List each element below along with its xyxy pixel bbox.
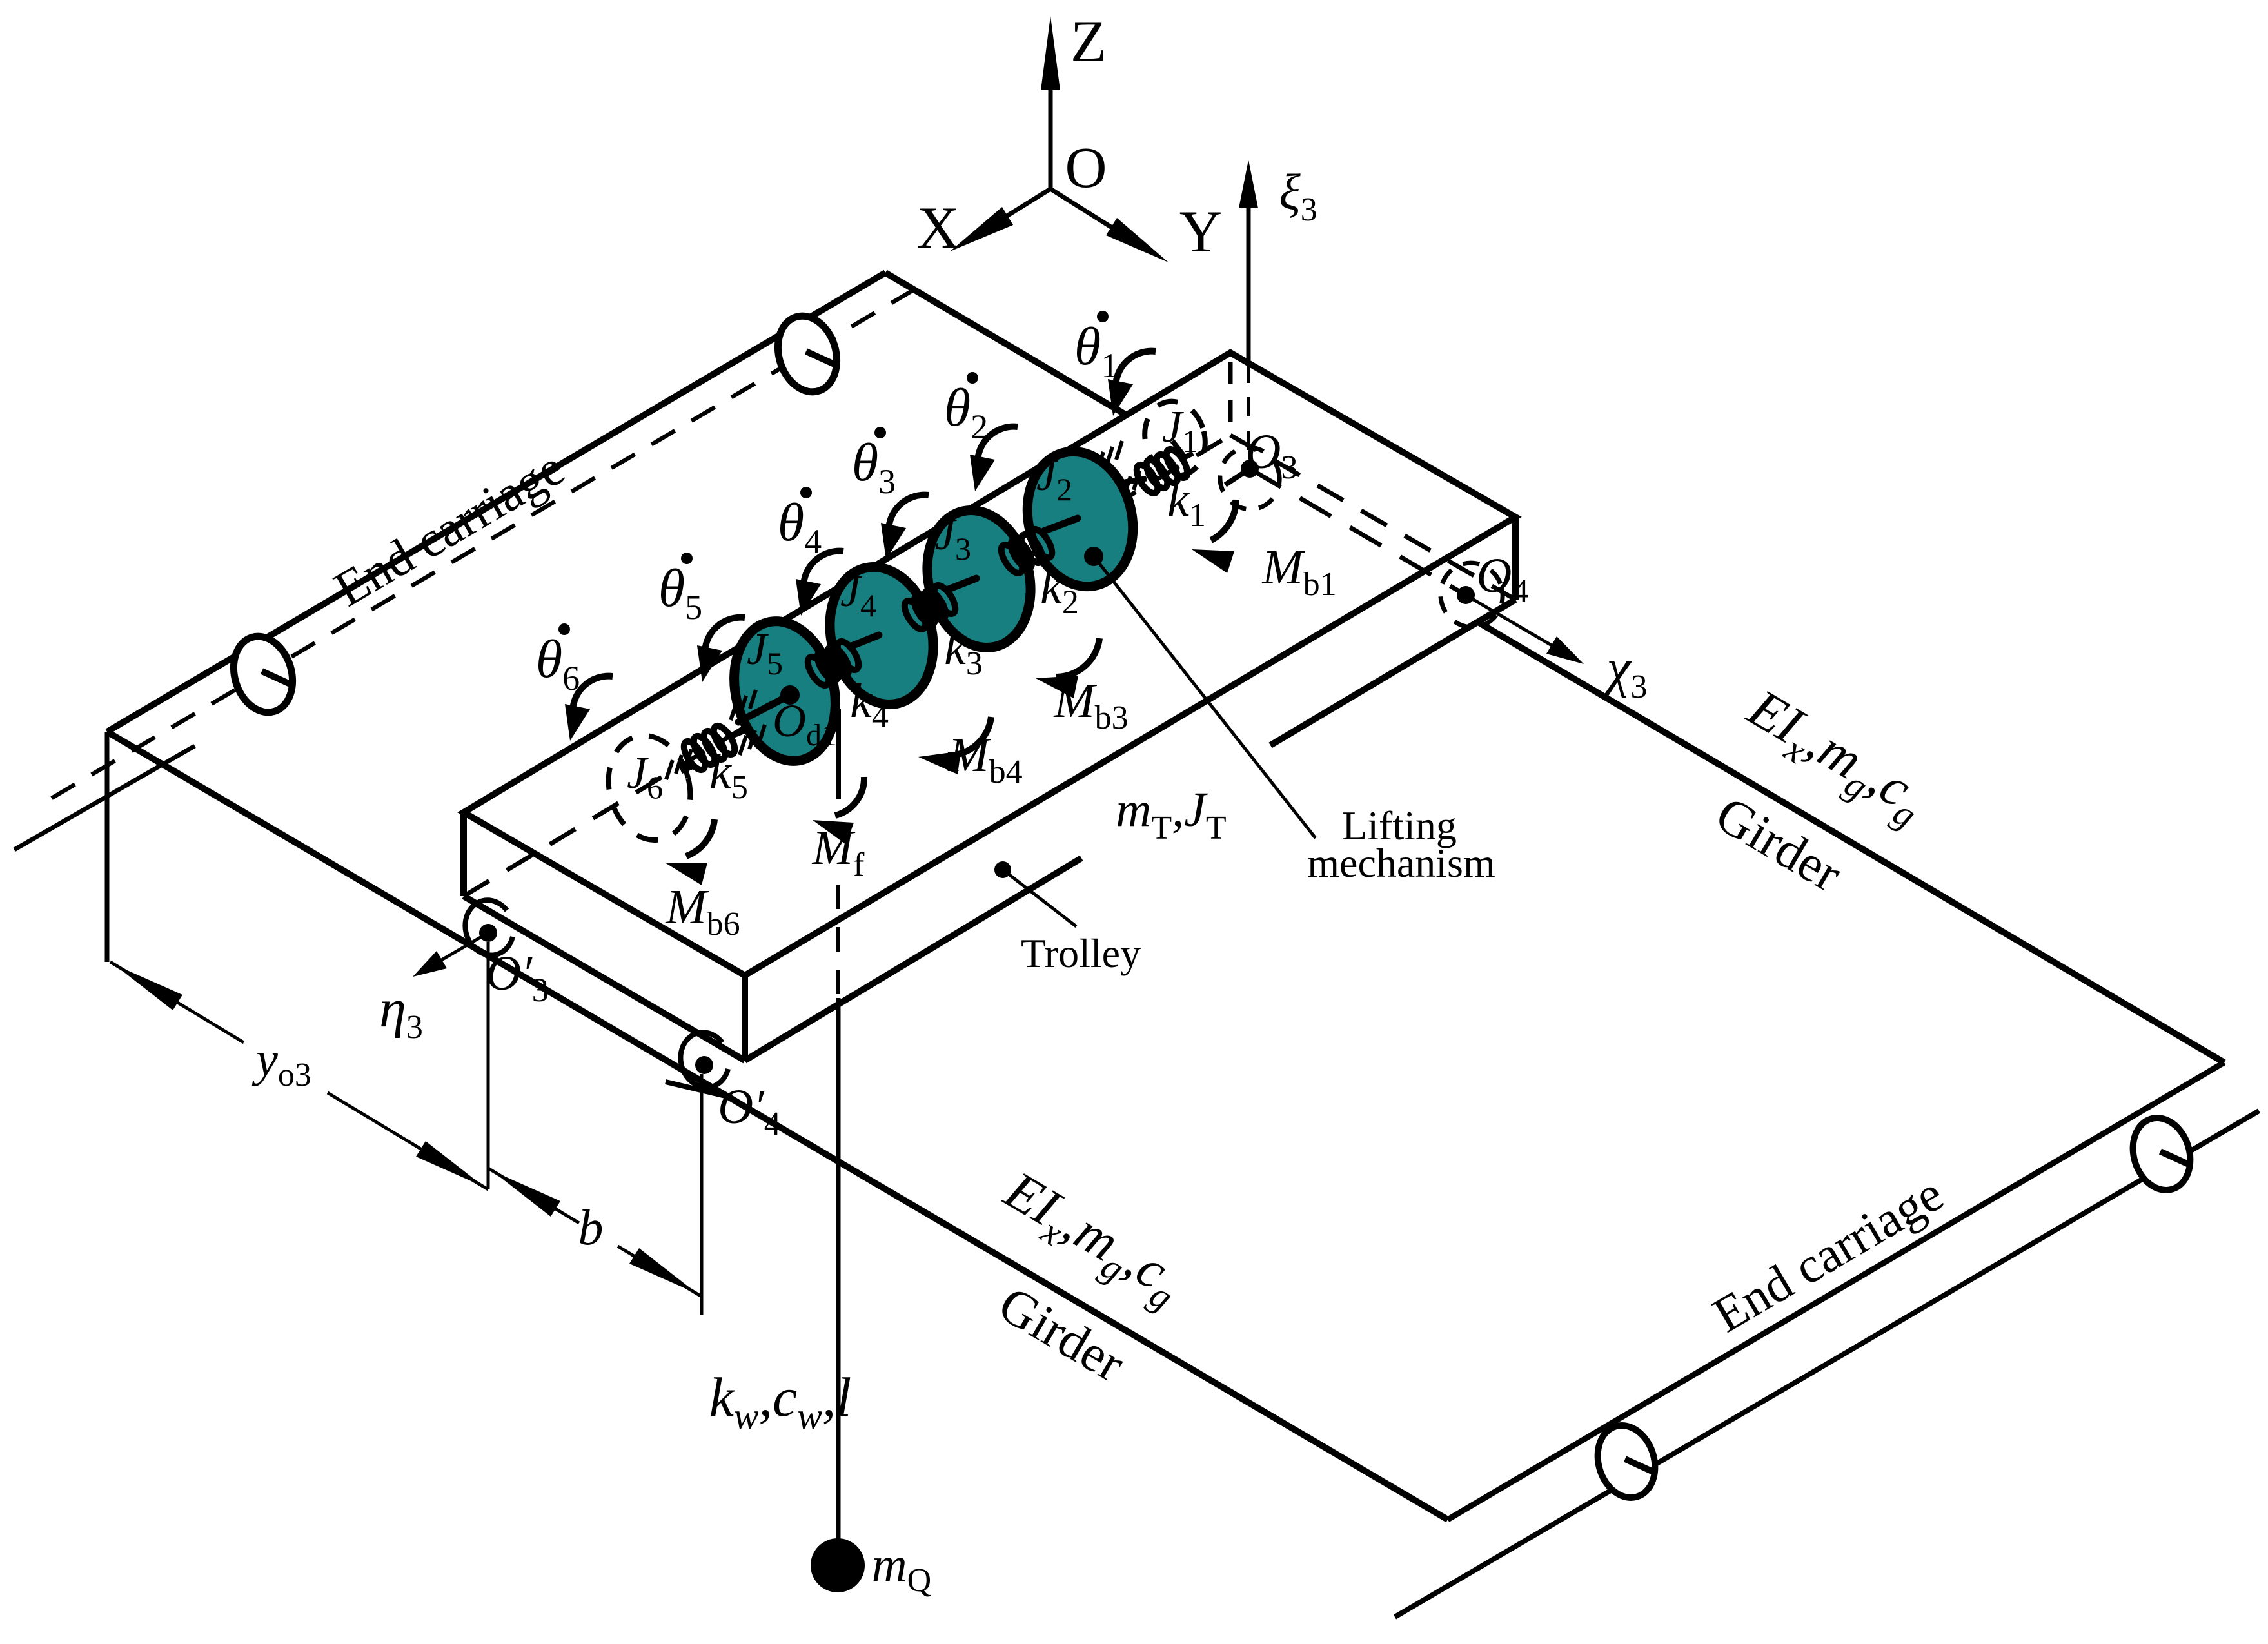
crank bar Od1-k5 — [738, 695, 790, 722]
moment arrow M_b4 — [948, 717, 991, 756]
girder (bottom-left) outer edge — [107, 732, 1448, 1520]
inertia disk J5 — [720, 611, 850, 772]
rotation arrow theta5 — [705, 618, 745, 655]
O'3 vertical reference line — [487, 942, 490, 1189]
hatching at k1 (lower) — [1105, 488, 1111, 507]
node Od1 (drum centre on J5) — [780, 685, 800, 705]
rotation arrow theta3 — [889, 495, 929, 533]
xi3 axis hidden part — [1247, 364, 1250, 469]
inertia disk J1 (dashed) — [1137, 395, 1212, 482]
hatching at k5 (right upper) — [731, 701, 737, 720]
wheel slash (EC1 upper) — [806, 351, 836, 365]
trolley wheel O'4 circle — [680, 1032, 728, 1087]
end carriage (bottom-right) upper edge — [1448, 1062, 2224, 1520]
trolley front vertical edge — [742, 975, 748, 1061]
node O4 — [1457, 586, 1475, 604]
Y axis — [1050, 189, 1148, 250]
moment arrow M_f — [835, 777, 864, 816]
hatching at k1 (upper) — [1097, 452, 1103, 471]
trolley left vertical edge — [460, 812, 467, 896]
wheel (end carriage top-left, lower) — [224, 629, 301, 719]
end carriage (bottom-right) lower edge — [1395, 1111, 2259, 1617]
wheel slash (EC2 upper) — [2160, 1151, 2190, 1165]
svg-text:b: b — [578, 1199, 604, 1255]
shaft stub J2-k1 — [1113, 478, 1147, 484]
axis line O3-O4 hidden — [1250, 469, 1466, 595]
leader line to Trolley — [1003, 870, 1076, 926]
spring k4 coil — [804, 654, 833, 689]
leader line to Lifting mechanism — [1094, 556, 1316, 838]
moment arrow M_b3 — [1056, 638, 1099, 677]
rotation arrow theta6 — [573, 676, 613, 714]
frame left vertical edge — [105, 732, 110, 962]
node O'4 — [695, 1056, 713, 1074]
inertia disk J4 — [816, 556, 947, 715]
svg-text:kw,cw,l: kw,cw,l — [709, 1366, 852, 1437]
node on disk J2 (leader dot) — [1084, 547, 1103, 566]
load mass m_Q ball — [811, 1538, 865, 1592]
wheel slash (EC2 lower) — [1625, 1459, 1655, 1473]
Z axis — [1049, 48, 1053, 189]
spring k5 coil — [680, 738, 709, 773]
inertia disk J6 (dashed) — [598, 727, 701, 848]
end carriage (top-left) dashed centerline — [52, 289, 914, 798]
spring k1 coil — [1132, 462, 1161, 496]
wheel (end carriage top-left, upper) — [769, 309, 845, 399]
trolley right vertical edge — [1512, 517, 1519, 600]
crank bar J4-k4 — [850, 635, 879, 647]
inertia disk J2 — [1014, 440, 1147, 598]
rope lower solid part — [836, 998, 841, 1541]
trolley wheel O'3 circle — [465, 900, 513, 955]
trolley bottom front-left edge — [464, 896, 745, 1061]
spring k2 coil — [997, 542, 1026, 576]
dimension b line — [488, 1168, 579, 1223]
node O'3 — [479, 924, 497, 942]
end carriage (top-left) outer edge — [107, 273, 885, 732]
O'4 vertical reference line — [700, 1074, 704, 1315]
inertia disk J3 — [913, 499, 1045, 658]
svg-text:X: X — [917, 195, 960, 260]
rotation arrow theta2 — [978, 427, 1018, 464]
girder (top-right) outer edge, left part — [885, 273, 1127, 415]
shaft stub k5-J5 — [727, 729, 748, 738]
hatching at k5 (right lower) — [740, 736, 746, 755]
hidden wheel circle at O3 — [1213, 441, 1287, 516]
dimension y_o3 line — [110, 962, 244, 1042]
node on trolley front face — [994, 861, 1011, 878]
rope upper solid part — [836, 709, 841, 799]
rotation arrow theta4 — [804, 551, 843, 589]
end carriage (top-left) inner edge stub — [14, 746, 195, 850]
hatching at k5 (left) — [666, 760, 673, 779]
trolley bottom front-right edge (right part) — [1270, 600, 1515, 745]
shaft stub J6-k5 — [681, 765, 695, 771]
spring k3 coil — [900, 598, 929, 632]
trolley hidden bottom edge (back-left) — [464, 435, 1230, 896]
shaft link k1-J1 — [1180, 453, 1193, 460]
hidden wheel circle at O4 — [1434, 556, 1510, 634]
node O3 — [1241, 460, 1259, 478]
xi3 axis solid part — [1247, 187, 1251, 364]
crank bar J2-k2 — [1043, 518, 1078, 531]
svg-text:O: O — [1065, 136, 1107, 200]
svg-text:mechanism: mechanism — [1307, 840, 1495, 886]
trolley hidden vertical edge at back corner — [1228, 362, 1233, 435]
moment arrow M_b6 — [686, 819, 715, 856]
crank bar J3-k3 — [947, 578, 976, 590]
chi3 axis — [1466, 595, 1567, 654]
svg-text:Z: Z — [1070, 8, 1107, 74]
wheel (end carriage bottom-right, lower) — [1589, 1418, 1664, 1505]
svg-text:Trolley: Trolley — [1021, 930, 1141, 976]
girder (top-right) outer edge, right part — [1478, 622, 2224, 1062]
O'4 slash — [666, 1082, 728, 1097]
crank mark in J1 — [1172, 441, 1185, 458]
trolley bottom front-right edge (left part) — [745, 858, 1081, 1061]
rotation arrow theta1 — [1116, 351, 1156, 389]
moment arrow M_b1 — [1211, 500, 1236, 540]
wheel slash (EC1 lower) — [262, 671, 291, 685]
trolley hidden bottom edge (back-right) — [1230, 435, 1515, 600]
trolley top face outline — [464, 353, 1515, 975]
O3 slash — [1225, 469, 1250, 485]
rope dashed part — [836, 885, 840, 998]
svg-text:Y: Y — [1179, 199, 1222, 264]
wheel (end carriage bottom-right, upper) — [2124, 1111, 2199, 1197]
X axis — [967, 189, 1050, 240]
eta3 axis — [436, 933, 488, 963]
